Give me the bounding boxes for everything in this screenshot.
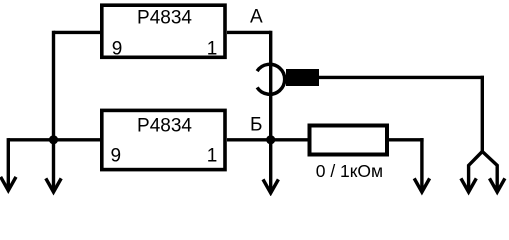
- svg-text:1: 1: [207, 146, 218, 167]
- clamp probe body (black block): [286, 69, 319, 86]
- arrow terminal (Y left): [461, 178, 476, 192]
- svg-text:Б: Б: [250, 115, 262, 136]
- wire: right vertical down to Y-split: [481, 76, 484, 152]
- resistor R1: [310, 126, 388, 155]
- wire: drop after resistor: [420, 138, 423, 190]
- arrow terminal (below left junction): [46, 178, 61, 192]
- arrow terminal (Y right): [490, 178, 505, 192]
- wire: node A vertical down through clamp and node Б: [269, 31, 272, 191]
- wire: P1 pin1 to node A corner: [227, 31, 271, 34]
- instrument P2 Р4834 (bottom box): [102, 110, 225, 169]
- wire: clamp output to right corner: [319, 76, 484, 79]
- wire: bus from P2 pin1 to resistor: [227, 138, 308, 141]
- junction dot (left bus / P1 wire): [49, 135, 58, 144]
- svg-text:Р4834: Р4834: [137, 116, 192, 137]
- svg-text:0 / 1кОм: 0 / 1кОм: [316, 161, 383, 181]
- wire: left vertical down from P1 pin9 to bottom arrow: [52, 31, 55, 190]
- arrow terminal (far left): [1, 177, 16, 191]
- arrow terminal (below node Б): [263, 179, 278, 193]
- svg-text:А: А: [250, 6, 263, 27]
- svg-text:1: 1: [207, 38, 218, 59]
- wire: Y-split right branch: [482, 152, 497, 191]
- wire: Y-split left branch: [469, 152, 483, 191]
- wire: resistor to right drop: [389, 138, 424, 141]
- wire: left bus horizontal: [8, 138, 101, 141]
- junction dot (node Б): [266, 135, 275, 144]
- current clamp probe circle (arc open left): [257, 64, 285, 94]
- instrument P1 Р4834 (top box): [102, 5, 225, 57]
- svg-text:Р4834: Р4834: [137, 8, 192, 29]
- svg-text:9: 9: [111, 146, 122, 167]
- arrow terminal (after resistor): [414, 178, 429, 192]
- wire: far-left drop: [7, 138, 10, 188]
- svg-text:9: 9: [112, 38, 123, 59]
- wire: P1 pin9 to left corner: [54, 31, 101, 34]
